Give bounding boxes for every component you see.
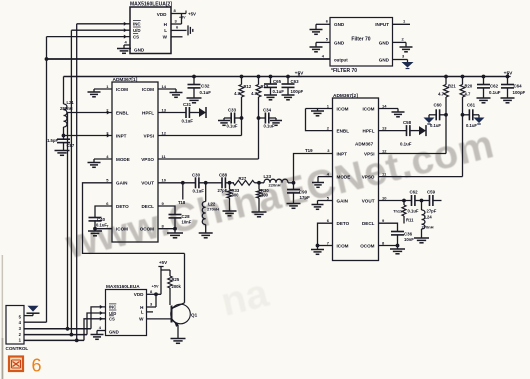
svg-text:DETO: DETO bbox=[116, 204, 129, 209]
svg-text:OCOM: OCOM bbox=[140, 227, 154, 232]
svg-text:ICOM: ICOM bbox=[116, 227, 128, 232]
svg-text:L: L bbox=[164, 28, 167, 33]
svg-text:ADM367: ADM367 bbox=[355, 142, 374, 147]
svg-text:INPUT: INPUT bbox=[375, 22, 389, 27]
svg-text:14: 14 bbox=[382, 103, 387, 108]
svg-text:DECL: DECL bbox=[362, 221, 375, 226]
svg-text:R27: R27 bbox=[239, 176, 247, 181]
svg-text:0.1uF: 0.1uF bbox=[200, 90, 212, 95]
svg-text:280nH: 280nH bbox=[60, 106, 73, 111]
svg-text:12: 12 bbox=[162, 130, 167, 135]
svg-text:12: 12 bbox=[382, 148, 387, 153]
svg-text:6: 6 bbox=[32, 356, 42, 376]
svg-text:200k: 200k bbox=[172, 284, 182, 289]
svg-text:L23: L23 bbox=[264, 174, 272, 179]
svg-text:100pF: 100pF bbox=[513, 90, 526, 95]
svg-text:27pF: 27pF bbox=[427, 208, 437, 213]
svg-text:R20: R20 bbox=[465, 84, 473, 89]
svg-text:Th11: Th11 bbox=[393, 208, 403, 213]
svg-text:output: output bbox=[334, 57, 348, 62]
svg-text:0.1uF: 0.1uF bbox=[430, 123, 441, 128]
svg-text:C30: C30 bbox=[192, 173, 201, 178]
svg-text:C61: C61 bbox=[467, 103, 476, 108]
svg-text:INPT: INPT bbox=[337, 151, 348, 156]
svg-text:U/D: U/D bbox=[133, 28, 141, 33]
svg-text:+5V: +5V bbox=[159, 260, 168, 265]
svg-text:C62: C62 bbox=[410, 189, 419, 194]
svg-text:4.7: 4.7 bbox=[234, 91, 240, 96]
svg-text:ENBL: ENBL bbox=[337, 128, 350, 133]
svg-text:GND: GND bbox=[334, 22, 345, 27]
svg-text:Filter 70: Filter 70 bbox=[351, 37, 370, 43]
svg-text:0.1uF: 0.1uF bbox=[400, 142, 412, 147]
svg-text:C59: C59 bbox=[427, 189, 436, 194]
svg-text:C34: C34 bbox=[263, 108, 272, 113]
svg-text:MAX5160LEUA: MAX5160LEUA bbox=[106, 284, 140, 289]
svg-text:0.1uF: 0.1uF bbox=[489, 90, 501, 95]
svg-text:DECL: DECL bbox=[141, 204, 154, 209]
svg-text:L21: L21 bbox=[67, 100, 75, 105]
svg-text:GND: GND bbox=[379, 57, 390, 62]
svg-text:GAIN: GAIN bbox=[337, 198, 349, 203]
svg-text:C63: C63 bbox=[291, 79, 300, 84]
svg-text:C90: C90 bbox=[299, 189, 308, 194]
svg-text:+5V: +5V bbox=[179, 16, 186, 20]
svg-text:R11: R11 bbox=[406, 218, 414, 223]
svg-text:VOUT: VOUT bbox=[362, 198, 375, 203]
svg-text:ADM367[1]: ADM367[1] bbox=[113, 77, 138, 83]
svg-text:C40: C40 bbox=[97, 217, 106, 222]
svg-text:GND: GND bbox=[134, 48, 145, 53]
svg-text:+5V: +5V bbox=[188, 12, 196, 17]
svg-text:VOUT: VOUT bbox=[141, 181, 154, 186]
svg-text:0.1uF: 0.1uF bbox=[96, 222, 107, 227]
svg-text:C33: C33 bbox=[228, 108, 237, 113]
svg-text:L24: L24 bbox=[425, 215, 433, 220]
svg-text:0.1uF: 0.1uF bbox=[182, 119, 194, 124]
svg-text:+5V: +5V bbox=[152, 285, 159, 289]
svg-text:GND: GND bbox=[379, 40, 390, 45]
svg-text:R25: R25 bbox=[172, 277, 180, 282]
svg-text:C36: C36 bbox=[404, 231, 413, 236]
svg-text:C65: C65 bbox=[273, 79, 282, 84]
svg-text:ADM367[2]: ADM367[2] bbox=[333, 93, 358, 99]
svg-text:DETO: DETO bbox=[337, 221, 350, 226]
svg-text:C28: C28 bbox=[182, 214, 191, 219]
svg-text:VPSI: VPSI bbox=[364, 151, 374, 156]
svg-text:0.1uF: 0.1uF bbox=[466, 123, 477, 128]
svg-text:R21: R21 bbox=[448, 84, 456, 89]
svg-text:W: W bbox=[163, 34, 168, 39]
svg-text:300: 300 bbox=[232, 193, 240, 198]
svg-text:VPSI: VPSI bbox=[144, 133, 154, 138]
svg-text:HPFL: HPFL bbox=[142, 110, 154, 115]
svg-text:C60: C60 bbox=[434, 103, 443, 108]
svg-text:1.5pF: 1.5pF bbox=[47, 138, 58, 143]
svg-text:INC: INC bbox=[133, 22, 141, 27]
svg-text:27pF: 27pF bbox=[218, 188, 228, 193]
svg-text:C58: C58 bbox=[403, 120, 412, 125]
svg-text:ICOM: ICOM bbox=[337, 243, 349, 248]
svg-text:4.7: 4.7 bbox=[465, 92, 471, 97]
svg-text:0.1uF: 0.1uF bbox=[273, 89, 285, 94]
svg-text:T18: T18 bbox=[178, 200, 186, 205]
svg-text:10nF: 10nF bbox=[404, 237, 414, 242]
svg-text:0.1uF: 0.1uF bbox=[264, 124, 275, 129]
svg-text:17pF: 17pF bbox=[300, 195, 311, 200]
svg-text:10: 10 bbox=[382, 195, 387, 200]
svg-text:ENBL: ENBL bbox=[116, 110, 129, 115]
svg-text:GND: GND bbox=[109, 330, 119, 335]
svg-text:T19: T19 bbox=[305, 148, 313, 153]
svg-text:INC: INC bbox=[109, 305, 116, 310]
svg-text:ICOM: ICOM bbox=[337, 106, 349, 111]
svg-text:4.7: 4.7 bbox=[438, 92, 444, 97]
svg-text:C88: C88 bbox=[219, 173, 228, 178]
svg-text:C31: C31 bbox=[183, 102, 192, 107]
svg-text:GND: GND bbox=[334, 40, 345, 45]
svg-text:270nH: 270nH bbox=[207, 207, 219, 212]
svg-text:R12: R12 bbox=[244, 84, 252, 89]
svg-text:W: W bbox=[139, 317, 144, 322]
svg-text:HPFL: HPFL bbox=[363, 128, 375, 133]
svg-text:13: 13 bbox=[382, 125, 387, 130]
svg-text:10nF: 10nF bbox=[182, 219, 192, 224]
svg-text:ICOM: ICOM bbox=[363, 106, 375, 111]
svg-text:ICOM: ICOM bbox=[142, 87, 154, 92]
svg-text:0.1uF: 0.1uF bbox=[193, 189, 205, 194]
svg-text:VDD: VDD bbox=[134, 292, 144, 297]
svg-text:0.1uF: 0.1uF bbox=[227, 124, 238, 129]
svg-text:GAIN: GAIN bbox=[116, 181, 128, 186]
svg-text:OCOM: OCOM bbox=[360, 243, 374, 248]
svg-text:INPT: INPT bbox=[116, 133, 127, 138]
svg-text:ICOM: ICOM bbox=[116, 87, 128, 92]
svg-text:14: 14 bbox=[162, 84, 167, 89]
svg-text:U/D: U/D bbox=[109, 311, 116, 316]
svg-text:CS: CS bbox=[109, 317, 115, 322]
svg-text:10: 10 bbox=[162, 178, 167, 183]
svg-text:CONTROL: CONTROL bbox=[6, 346, 29, 351]
svg-text:MAX5160LEUA[2]: MAX5160LEUA[2] bbox=[130, 2, 172, 8]
svg-text:L: L bbox=[141, 310, 144, 315]
svg-text:220nH: 220nH bbox=[269, 182, 281, 187]
svg-text:0.1uF: 0.1uF bbox=[408, 208, 419, 213]
svg-text:VPSO: VPSO bbox=[141, 157, 154, 162]
svg-text:R13: R13 bbox=[261, 84, 269, 89]
svg-text:MODE: MODE bbox=[116, 157, 130, 162]
svg-text:Q1: Q1 bbox=[191, 313, 198, 318]
svg-text:C62: C62 bbox=[490, 84, 499, 89]
svg-text:270nH: 270nH bbox=[422, 225, 434, 230]
svg-text:100pF: 100pF bbox=[291, 89, 304, 94]
svg-text:13: 13 bbox=[162, 107, 167, 112]
svg-text:C64: C64 bbox=[514, 84, 523, 89]
svg-text:MODE: MODE bbox=[337, 174, 351, 179]
svg-text:CS: CS bbox=[133, 34, 139, 39]
svg-text:*FILTER 70: *FILTER 70 bbox=[331, 68, 357, 74]
svg-text:300: 300 bbox=[261, 193, 269, 198]
svg-text:C32: C32 bbox=[201, 84, 210, 89]
svg-text:VPSO: VPSO bbox=[362, 174, 375, 179]
svg-text:VDD: VDD bbox=[157, 12, 167, 17]
svg-text:4.7: 4.7 bbox=[251, 91, 257, 96]
